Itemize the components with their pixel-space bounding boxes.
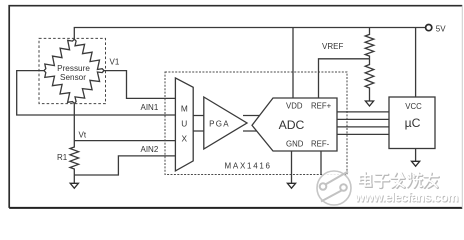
wire REF+ pin to VREF bbox=[319, 59, 370, 98]
svg-text:µC: µC bbox=[405, 116, 421, 130]
5V terminal bbox=[426, 25, 432, 31]
ADC block bbox=[252, 98, 337, 151]
svg-text:Vt: Vt bbox=[79, 131, 87, 140]
svg-text:5V: 5V bbox=[436, 24, 446, 33]
svg-text:REF-: REF- bbox=[311, 139, 330, 148]
bridge resistor top-right bbox=[74, 39, 104, 70]
svg-text:MAX1416: MAX1416 bbox=[225, 161, 272, 170]
ground below divider bbox=[365, 101, 373, 106]
op-amp PGA triangle bbox=[204, 97, 247, 149]
svg-text:V1: V1 bbox=[110, 58, 120, 67]
resistor R1 bbox=[70, 146, 79, 170]
svg-text:U: U bbox=[181, 119, 187, 129]
wire Vt to MUX bbox=[74, 140, 175, 142]
microcontroller uC box bbox=[389, 97, 435, 149]
bridge resistor right-bottom bbox=[74, 71, 104, 104]
svg-text:X: X bbox=[182, 134, 188, 144]
svg-text:VDD: VDD bbox=[286, 102, 303, 111]
wire VCC to 5V rail bbox=[415, 28, 417, 98]
wire uC to ground bbox=[415, 149, 417, 162]
svg-text:M: M bbox=[181, 104, 188, 114]
wire AIN2 from R1 bottom to MUX bbox=[74, 156, 175, 175]
svg-text:GND: GND bbox=[286, 139, 304, 148]
svg-text:PGA: PGA bbox=[209, 120, 230, 129]
watermark chinese text bbox=[360, 173, 439, 188]
svg-text:ADC: ADC bbox=[279, 118, 305, 132]
svg-text:VREF: VREF bbox=[322, 42, 343, 51]
svg-text:AIN1: AIN1 bbox=[141, 103, 159, 112]
ground below uC bbox=[412, 161, 420, 166]
wire V1 to MUX bbox=[104, 71, 175, 99]
bridge resistor left-bottom bbox=[44, 71, 74, 104]
svg-text:R1: R1 bbox=[57, 153, 68, 162]
wire top 5V rail bbox=[74, 28, 425, 41]
svg-text:VCC: VCC bbox=[405, 102, 422, 111]
pressure sensor dashed box bbox=[39, 38, 106, 103]
wires MUX to PGA bbox=[193, 116, 204, 132]
ground below GND pin bbox=[287, 183, 295, 188]
bus wires ADC to uC bbox=[337, 112, 389, 134]
svg-text:Sensor: Sensor bbox=[60, 73, 86, 82]
wire bridge left to AIN1 bbox=[17, 71, 176, 115]
svg-text:www.elecfans.com: www.elecfans.com bbox=[354, 191, 459, 205]
wire REF- pin down bbox=[320, 151, 322, 175]
MAX1416 dashed box bbox=[165, 72, 347, 175]
wire GND pin to ground bbox=[291, 151, 293, 183]
watermark logo circle bbox=[317, 171, 351, 205]
svg-text:AIN2: AIN2 bbox=[141, 145, 159, 154]
resistor divider upper bbox=[365, 28, 374, 59]
ground below R1 bbox=[70, 183, 78, 188]
analog mux MUX bbox=[175, 78, 193, 171]
bridge resistor top-left bbox=[44, 39, 74, 70]
wire R1 bottom to ground bbox=[73, 170, 75, 183]
wires PGA to ADC bbox=[243, 116, 260, 132]
svg-text:Pressure: Pressure bbox=[57, 64, 90, 73]
svg-text:REF+: REF+ bbox=[311, 102, 332, 111]
wire bridge bottom to Vt bbox=[73, 104, 75, 146]
wire VDD pin to 5V rail bbox=[292, 28, 294, 99]
resistor divider lower bbox=[365, 59, 374, 101]
